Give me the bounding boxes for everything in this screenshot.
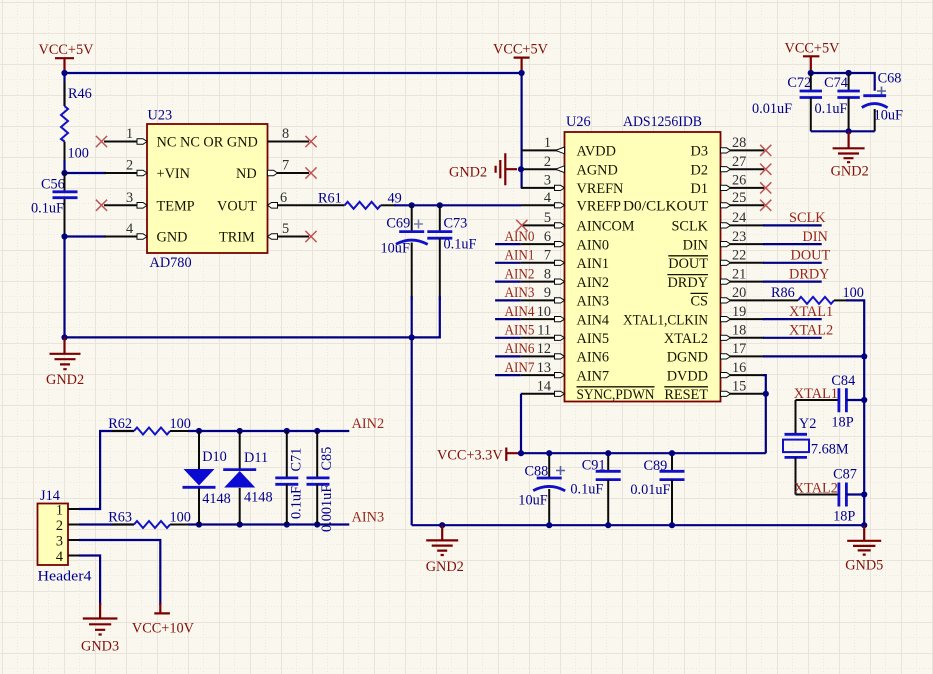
wire net AIN5 to U26 pin 11	[495, 337, 521, 339]
U26 pin 6	[521, 229, 565, 247]
svg-text:VCC+10V: VCC+10V	[132, 621, 195, 637]
wire digital ground bottom rail	[412, 524, 865, 526]
junction VCC+5V right / C72	[808, 70, 814, 76]
U26 pin name AIN4	[577, 312, 610, 328]
capacitor C89 0.01uF	[630, 453, 684, 525]
U26 pin name DVDD	[667, 368, 708, 384]
svg-text:VREFP: VREFP	[577, 199, 622, 215]
U23 pin 1	[104, 126, 147, 144]
svg-text:NC: NC	[157, 135, 177, 151]
svg-text:27: 27	[732, 154, 746, 170]
svg-text:AD780: AD780	[150, 255, 192, 271]
svg-text:D3: D3	[691, 144, 708, 160]
ground GND2 (rotated, U26 AGND pin 2)	[449, 153, 517, 185]
svg-text:0.001uF: 0.001uF	[319, 485, 335, 532]
junction C73 top	[437, 202, 443, 208]
svg-text:4: 4	[126, 221, 133, 237]
svg-text:R62: R62	[108, 416, 132, 432]
U26 pin name AIN6	[577, 350, 610, 366]
svg-text:C74: C74	[824, 75, 848, 91]
power port VCC+5V (top right)	[785, 41, 841, 74]
svg-text:VCC+5V: VCC+5V	[39, 42, 95, 58]
svg-text:19: 19	[732, 304, 746, 320]
junction C91 bottom	[605, 522, 611, 528]
U26 pin name VREFP	[577, 199, 622, 215]
U26 pin name AIN0	[577, 237, 610, 253]
svg-text:AIN5: AIN5	[505, 323, 535, 339]
no connect X on U26 pin 26	[760, 182, 771, 193]
U26 pin name D2	[691, 162, 708, 178]
resistor R46	[61, 86, 92, 162]
no connect X on U26 pin 25	[760, 200, 771, 211]
wire decoupling bottom rail	[811, 130, 875, 132]
U26 pin 25	[721, 190, 765, 208]
op-amp U26 ADS1256IDB body	[565, 114, 721, 402]
U26 pin name AINCOM	[577, 219, 635, 235]
svg-text:AIN7: AIN7	[505, 360, 535, 376]
U26 pin 3	[521, 173, 565, 191]
svg-text:1: 1	[126, 126, 133, 142]
svg-text:AIN3: AIN3	[577, 294, 610, 310]
junction C74 top	[846, 70, 852, 76]
U26 pin 17	[721, 341, 765, 359]
wire J14 pin 4 to GND3	[79, 556, 100, 606]
svg-text:VCC+5V: VCC+5V	[785, 41, 841, 57]
U26 pin 27	[721, 154, 765, 172]
U26 pin 19	[721, 304, 765, 322]
U26 pin name DOUT	[668, 256, 708, 272]
wire crystal to XTAL2 row	[796, 457, 839, 494]
U26 pin 9	[521, 285, 565, 303]
U23 pin 6	[268, 190, 345, 208]
svg-text:28: 28	[732, 135, 746, 151]
U26 pin name DGND	[667, 350, 708, 366]
wire R46 top lead	[63, 73, 65, 106]
svg-text:AIN7: AIN7	[577, 368, 610, 384]
svg-text:D0/CLKOUT: D0/CLKOUT	[623, 199, 708, 215]
svg-text:GND5: GND5	[845, 558, 883, 574]
wire net AIN0 to U26 pin 6	[495, 243, 521, 245]
svg-text:C71: C71	[289, 448, 305, 472]
svg-text:U23: U23	[148, 108, 173, 124]
svg-text:100: 100	[170, 416, 191, 432]
junction D11 top	[237, 428, 243, 434]
diode D11 4148	[223, 431, 272, 525]
wire decoupling top rail	[811, 73, 875, 91]
svg-text:AIN4: AIN4	[577, 312, 610, 328]
U26 pin 18	[721, 323, 765, 341]
power port VCC+3.3V	[437, 447, 518, 463]
junction C89 bottom	[669, 522, 675, 528]
svg-text:AIN6: AIN6	[577, 350, 610, 366]
svg-text:D11: D11	[244, 450, 268, 466]
wire net DOUT from U26 pin 22	[763, 262, 822, 264]
svg-text:C56: C56	[41, 177, 65, 193]
wire C87 to ground vertical	[846, 493, 864, 495]
wire R61 to U26 pin 4	[381, 204, 396, 206]
svg-text:Y2: Y2	[799, 416, 816, 432]
svg-text:0.1uF: 0.1uF	[444, 237, 477, 253]
svg-text:VCC+5V: VCC+5V	[493, 42, 549, 58]
svg-text:Header4: Header4	[38, 569, 92, 585]
svg-text:6: 6	[280, 190, 287, 206]
ground GND2 (bottom middle)	[426, 525, 464, 575]
wire R62 to net AIN2	[188, 430, 349, 432]
svg-text:18P: 18P	[831, 415, 853, 431]
U23 pin 4	[104, 221, 147, 239]
U26 pin 26	[721, 173, 765, 191]
svg-text:ADS1256IDB: ADS1256IDB	[623, 114, 702, 130]
U26 pin name D3	[691, 144, 708, 160]
no connect X on U23 pin 8	[305, 136, 316, 147]
wire 5V down to U26 pin 1 and pin 3	[520, 73, 522, 188]
wire C56 down to ground rail	[63, 237, 65, 338]
svg-text:D1: D1	[691, 181, 708, 197]
wire analog ground rail to C73	[65, 336, 441, 338]
svg-text:1: 1	[56, 503, 63, 519]
U26 pin 8	[521, 266, 565, 284]
svg-text:4148: 4148	[202, 491, 231, 507]
svg-text:RESET: RESET	[664, 387, 708, 403]
svg-text:21: 21	[732, 266, 746, 282]
J14 pin 1	[56, 503, 80, 519]
op-amp U23 AD780 body	[147, 108, 268, 272]
svg-text:11: 11	[537, 323, 551, 339]
svg-text:AIN2: AIN2	[352, 416, 385, 432]
junction C85 bottom	[314, 521, 320, 527]
wire J14 pin 2 to R63	[79, 523, 134, 525]
junction C84 at vertical	[861, 397, 867, 403]
svg-text:VREFN: VREFN	[577, 181, 624, 197]
wire net AIN1 to U26 pin 7	[495, 262, 521, 264]
svg-text:DIN: DIN	[802, 229, 827, 245]
U26 pin 24	[721, 210, 765, 228]
ground GND2 (top right)	[831, 131, 869, 179]
U26 pin name DRDY	[667, 275, 708, 291]
wire 3.3V rail	[521, 452, 766, 454]
svg-text:2: 2	[126, 158, 133, 174]
U26 pin name AVDD	[577, 144, 616, 160]
capacitor C87 18P	[833, 467, 857, 525]
svg-text:AIN1: AIN1	[577, 256, 610, 272]
svg-text:AIN5: AIN5	[577, 331, 610, 347]
svg-text:GND2: GND2	[46, 372, 84, 388]
svg-text:17: 17	[732, 341, 746, 357]
svg-text:AINCOM: AINCOM	[577, 219, 635, 235]
junction C88 top	[546, 450, 552, 456]
junction at VCC+5V left	[61, 70, 67, 76]
svg-text:R61: R61	[318, 191, 342, 207]
U26 pin name AIN7	[577, 368, 610, 384]
svg-text:AIN6: AIN6	[505, 341, 535, 357]
svg-text:C72: C72	[787, 75, 811, 91]
svg-text:AIN2: AIN2	[505, 266, 535, 282]
svg-text:AIN1: AIN1	[505, 248, 535, 264]
no connect X on U23 pin 3	[96, 200, 107, 211]
svg-text:23: 23	[732, 229, 746, 245]
ground GND5	[845, 525, 883, 573]
svg-text:0.01uF: 0.01uF	[752, 101, 792, 117]
svg-text:GND: GND	[157, 230, 188, 246]
svg-text:XTAL2: XTAL2	[664, 331, 708, 347]
junction C69 at ground rail	[409, 334, 415, 340]
U26 pin 4	[521, 190, 565, 208]
U26 pin name AIN3	[577, 294, 610, 310]
svg-text:AIN3: AIN3	[505, 285, 535, 301]
junction C85 top	[314, 428, 320, 434]
svg-text:VCC+3.3V: VCC+3.3V	[437, 447, 503, 463]
U26 pin 13	[521, 360, 565, 378]
U26 pin 12	[521, 341, 565, 359]
resistor R61 49	[318, 191, 402, 209]
ground GND3	[81, 603, 119, 655]
svg-text:C68: C68	[878, 71, 902, 87]
J14 pin 3	[56, 534, 80, 550]
junction R46/C56/pin2	[61, 170, 67, 176]
svg-text:DOUT: DOUT	[791, 248, 831, 264]
svg-text:4: 4	[56, 549, 63, 565]
svg-text:DIN: DIN	[683, 237, 708, 253]
svg-text:6: 6	[544, 229, 551, 245]
junction U26 pin 15 RESET joins DVDD vertical	[763, 391, 769, 397]
junction GND2 stem at bottom rail	[439, 522, 445, 528]
svg-text:TEMP: TEMP	[157, 199, 195, 215]
wire U26 pin 17 DGND to ground vertical	[763, 355, 864, 357]
junction C89 top	[669, 450, 675, 456]
svg-text:U26: U26	[566, 114, 591, 130]
svg-text:C85: C85	[319, 447, 335, 471]
power port VCC+5V (left)	[39, 42, 95, 73]
wire to U23 pin 4	[65, 235, 107, 237]
svg-text:4: 4	[544, 190, 551, 206]
U26 pin name SCLK	[671, 219, 708, 235]
wire to U23 pin 2	[65, 172, 107, 174]
wire C69 branch down to bottom rail	[411, 337, 413, 525]
wire J14 pin 3 to VCC+10V	[79, 540, 160, 605]
wire net DRDY from U26 pin 21	[763, 281, 822, 283]
capacitor C71 0.1uF	[275, 431, 304, 525]
wire U26 pin 15 stub	[763, 393, 766, 395]
svg-text:10: 10	[537, 304, 551, 320]
U26 pin 16	[721, 360, 765, 378]
wire C73 down to ground rail corner	[438, 296, 440, 337]
wire net SCLK from U26 pin 24	[763, 224, 822, 226]
junction C91 top	[605, 450, 611, 456]
no connect X on U26 pin 5 AINCOM	[516, 220, 527, 231]
wire net AIN4 to U26 pin 10	[495, 318, 521, 320]
junction D10 bottom	[196, 521, 202, 527]
wire C69 down to ground rail	[411, 296, 413, 337]
svg-text:DGND: DGND	[667, 350, 708, 366]
junction C87 at vertical	[861, 491, 867, 497]
U23 pin 7	[268, 158, 310, 176]
svg-text:9: 9	[544, 285, 551, 301]
U26 pin 15	[721, 379, 765, 397]
wire net XTAL1 from U26 pin 19	[763, 318, 822, 320]
power port VCC+10V	[132, 603, 195, 637]
svg-text:13: 13	[537, 360, 551, 376]
svg-text:D2: D2	[691, 162, 708, 178]
U26 pin 2	[521, 154, 565, 173]
svg-text:25: 25	[732, 190, 746, 206]
svg-text:3: 3	[56, 534, 63, 550]
U26 pin name AIN1	[577, 256, 610, 272]
svg-text:XTAL2: XTAL2	[789, 323, 833, 339]
junction D10 top	[196, 428, 202, 434]
svg-text:12: 12	[537, 341, 551, 357]
U26 pin name AGND	[577, 162, 618, 178]
no connect X on U26 pin 27	[760, 164, 771, 175]
svg-text:NC OR GND: NC OR GND	[180, 135, 258, 151]
capacitor C88 10uF polarized	[518, 453, 565, 525]
junction C74 bottom / GND stem	[846, 128, 852, 134]
U26 pin 21	[721, 266, 765, 284]
junction 5V rail / U26 AVDD	[519, 70, 525, 76]
svg-text:CS: CS	[691, 294, 709, 310]
svg-text:3: 3	[126, 190, 133, 206]
U26 pin 14	[521, 379, 565, 397]
wire U26 pin 16 DVDD down to 3.3V rail	[763, 375, 766, 453]
svg-text:C69: C69	[386, 216, 410, 232]
svg-text:+VIN: +VIN	[157, 166, 190, 182]
U26 pin name D0/CLKOUT	[623, 199, 708, 215]
wire net AIN6 to U26 pin 12	[495, 355, 521, 357]
svg-text:D10: D10	[202, 449, 227, 465]
crystal Y2 7.68M	[783, 416, 849, 458]
svg-text:7: 7	[282, 158, 289, 174]
capacitor C68 10uF polarized	[862, 71, 903, 132]
svg-text:2: 2	[56, 518, 63, 534]
U26 pin 22	[721, 248, 765, 266]
wire net XTAL2 from U26 pin 18	[763, 337, 822, 339]
wire J14 pin 1 up to R62	[79, 431, 134, 509]
junction VCC+3.3V rail	[518, 450, 524, 456]
svg-text:18: 18	[732, 323, 746, 339]
capacitor C85 0.001uF	[307, 431, 336, 532]
svg-text:C84: C84	[831, 373, 855, 389]
U26 pin name DIN	[683, 237, 708, 253]
no connect X on U23 pin 5	[305, 231, 316, 242]
svg-text:AIN2: AIN2	[577, 275, 610, 291]
svg-text:R63: R63	[108, 509, 132, 525]
junction U26 pin 2	[518, 166, 524, 172]
wire U26 pin 14 SYNC,PDWN down to 3.3V rail	[520, 394, 522, 453]
svg-text:49: 49	[388, 191, 402, 207]
wire R46 bottom lead	[64, 142, 66, 165]
svg-text:SCLK: SCLK	[789, 210, 826, 226]
wire net AIN3 to U26 pin 9	[495, 299, 521, 301]
U26 pin 7	[521, 248, 565, 266]
capacitor C91 0.1uF	[570, 453, 620, 525]
svg-text:3: 3	[544, 173, 551, 189]
wire net AIN7 to U26 pin 13	[495, 374, 521, 376]
svg-text:GND3: GND3	[81, 639, 119, 655]
svg-text:100: 100	[843, 285, 864, 301]
U26 pin 10	[521, 304, 565, 322]
svg-text:GND2: GND2	[426, 559, 464, 575]
svg-text:100: 100	[170, 509, 191, 525]
svg-text:AGND: AGND	[577, 162, 618, 178]
svg-text:20: 20	[732, 285, 746, 301]
capacitor C74 0.1uF	[815, 73, 860, 131]
svg-text:GND2: GND2	[831, 164, 869, 180]
U26 pin 28	[721, 135, 765, 153]
U23 pin 5	[268, 221, 310, 239]
svg-text:R86: R86	[771, 285, 795, 301]
svg-text:AIN0: AIN0	[577, 237, 610, 253]
wire U26 pin 20 to R86	[763, 299, 798, 301]
svg-text:AIN3: AIN3	[352, 510, 385, 526]
U26 pin name AIN2	[577, 275, 610, 291]
svg-text:AIN4: AIN4	[505, 304, 535, 320]
capacitor C72 0.01uF	[752, 73, 822, 131]
J14 pin 4	[56, 549, 80, 565]
svg-text:0.1uF: 0.1uF	[570, 482, 603, 498]
U26 pin 23	[721, 229, 765, 247]
U26 pin 11	[521, 323, 565, 341]
svg-text:DRDY: DRDY	[789, 266, 830, 282]
junction D11 bottom	[237, 521, 243, 527]
resistor R62 100	[108, 416, 191, 435]
svg-text:15: 15	[732, 379, 746, 395]
resistor R86 100	[771, 285, 864, 304]
svg-text:R46: R46	[68, 86, 92, 102]
U26 pin 5	[521, 210, 565, 228]
U26 pin name VREFN	[577, 181, 624, 197]
wire net DIN from U26 pin 23	[763, 243, 822, 245]
svg-text:C73: C73	[444, 216, 468, 232]
wire R63 to net AIN3	[188, 523, 349, 525]
svg-text:GND2: GND2	[449, 165, 487, 181]
junction C71 bottom	[284, 521, 290, 527]
junction C69 top	[409, 202, 415, 208]
J14 pin 2	[56, 518, 80, 534]
svg-text:7: 7	[544, 248, 551, 264]
no connect X on U23 pin 7	[305, 167, 316, 178]
U26 pin name XTAL1,CLKIN	[623, 312, 708, 328]
junction C71 top	[284, 428, 290, 434]
svg-text:ND: ND	[236, 166, 257, 182]
svg-text:VOUT: VOUT	[217, 199, 257, 215]
wire XTAL1 crystal row	[796, 400, 839, 434]
U26 pin name D1	[691, 181, 708, 197]
svg-text:5: 5	[282, 221, 289, 237]
U26 pin 20	[721, 285, 765, 303]
svg-text:SYNC,PDWN: SYNC,PDWN	[577, 387, 655, 403]
svg-text:0.01uF: 0.01uF	[630, 482, 670, 498]
wire C84 to ground vertical	[846, 399, 864, 401]
svg-text:SCLK: SCLK	[671, 219, 708, 235]
U26 pin name XTAL2	[664, 331, 708, 347]
U26 pin name AIN5	[577, 331, 610, 347]
U26 pin 1	[521, 135, 565, 154]
svg-text:XTAL1: XTAL1	[789, 304, 833, 320]
svg-text:8: 8	[282, 126, 289, 142]
svg-text:14: 14	[537, 379, 551, 395]
U23 pin 2	[104, 158, 147, 176]
junction DGND at vertical	[861, 353, 867, 359]
wire net AIN2 to U26 pin 8	[495, 281, 521, 283]
svg-text:DVDD: DVDD	[667, 368, 708, 384]
wire 5V rail top	[65, 72, 522, 74]
connector J14 Header4 body	[38, 488, 92, 585]
resistor R63 100	[108, 509, 191, 528]
svg-text:22: 22	[732, 248, 746, 264]
svg-text:10uF: 10uF	[381, 241, 410, 257]
svg-text:4148: 4148	[244, 490, 273, 506]
svg-text:0.1uF: 0.1uF	[815, 101, 848, 117]
U26 pin name SYNC,PDWN	[577, 387, 655, 403]
